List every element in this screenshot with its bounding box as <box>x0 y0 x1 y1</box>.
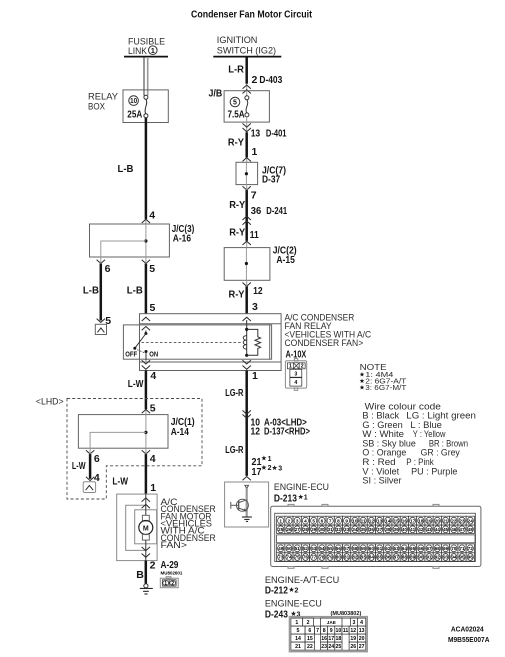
svg-text:CONDENSER FAN>: CONDENSER FAN> <box>285 338 364 349</box>
svg-text:PU : Purple: PU : Purple <box>411 466 457 477</box>
svg-text:13: 13 <box>359 628 365 634</box>
svg-text:36: 36 <box>251 205 262 217</box>
svg-text:1: 1 <box>304 495 308 502</box>
svg-text:ACA02024: ACA02024 <box>451 625 485 634</box>
svg-text:14: 14 <box>385 518 391 523</box>
svg-text:4: 4 <box>304 518 307 523</box>
svg-text:2: 2 <box>171 581 174 587</box>
svg-text:18: 18 <box>336 636 342 642</box>
svg-text:1: 1 <box>150 482 156 494</box>
svg-text:60: 60 <box>369 546 375 551</box>
svg-text:16: 16 <box>402 518 408 523</box>
svg-text:1: 1 <box>295 620 298 626</box>
svg-text:6: 6 <box>308 628 311 634</box>
svg-text:48: 48 <box>468 527 474 532</box>
svg-text:25: 25 <box>336 644 342 650</box>
svg-text:96: 96 <box>468 555 474 560</box>
svg-text:D-241: D-241 <box>266 205 287 217</box>
svg-text:Condenser Fan Motor Circuit: Condenser Fan Motor Circuit <box>191 8 312 20</box>
svg-text:10: 10 <box>336 628 342 634</box>
svg-text:L-B: L-B <box>83 285 99 297</box>
svg-text:7: 7 <box>316 628 319 634</box>
svg-text:17: 17 <box>252 466 262 478</box>
svg-text:15: 15 <box>307 636 313 642</box>
svg-text:86: 86 <box>385 555 391 560</box>
svg-text:20: 20 <box>435 518 441 523</box>
svg-text:JAE: JAE <box>327 620 336 625</box>
svg-text:M: M <box>143 526 149 533</box>
svg-text:R-Y: R-Y <box>229 199 245 211</box>
svg-text:10: 10 <box>130 98 137 105</box>
svg-text:NOTE: NOTE <box>360 362 387 372</box>
svg-text:64: 64 <box>402 546 408 551</box>
svg-text:3: 3 <box>294 371 297 377</box>
svg-text:1: 1 <box>151 46 155 55</box>
svg-text:25A: 25A <box>127 108 142 120</box>
svg-text:49: 49 <box>278 546 284 551</box>
svg-text:33: 33 <box>344 527 350 532</box>
svg-text:24: 24 <box>468 518 474 523</box>
svg-text:30: 30 <box>319 527 325 532</box>
svg-text:87: 87 <box>393 555 399 560</box>
svg-text:84: 84 <box>369 555 375 560</box>
svg-text:A-15: A-15 <box>276 254 295 266</box>
svg-text:D-37: D-37 <box>262 173 280 185</box>
svg-text:17: 17 <box>410 518 416 523</box>
svg-text:74: 74 <box>286 555 292 560</box>
svg-text:SWITCH (IG2): SWITCH (IG2) <box>217 46 276 57</box>
svg-text:1: 1 <box>279 518 282 523</box>
svg-text:2: 2 <box>295 588 299 595</box>
svg-text:56: 56 <box>336 546 342 551</box>
svg-text:90: 90 <box>418 555 424 560</box>
svg-text:93: 93 <box>443 555 449 560</box>
svg-text:75: 75 <box>295 555 301 560</box>
svg-text:24: 24 <box>328 644 334 650</box>
svg-text:22: 22 <box>451 518 457 523</box>
svg-text:94: 94 <box>451 555 457 560</box>
svg-text:40: 40 <box>402 527 408 532</box>
svg-text:7.5A: 7.5A <box>228 108 245 120</box>
svg-text:D-403: D-403 <box>259 74 282 86</box>
svg-text:39: 39 <box>393 527 399 532</box>
svg-text:23: 23 <box>321 644 327 650</box>
svg-text:85: 85 <box>377 555 383 560</box>
svg-text:5: 5 <box>150 302 156 314</box>
svg-text:22: 22 <box>307 644 313 650</box>
svg-text:R-Y: R-Y <box>229 227 245 239</box>
svg-text:44: 44 <box>435 527 441 532</box>
svg-text:38: 38 <box>385 527 391 532</box>
svg-text:LINK: LINK <box>128 46 148 57</box>
svg-text:9: 9 <box>345 518 348 523</box>
svg-text:12: 12 <box>369 518 375 523</box>
svg-text:ENGINE-ECU: ENGINE-ECU <box>274 482 329 493</box>
svg-text:5: 5 <box>149 263 155 275</box>
svg-text:12: 12 <box>253 285 263 297</box>
svg-text:11: 11 <box>361 518 366 523</box>
svg-text:50: 50 <box>286 546 292 551</box>
svg-text:89: 89 <box>410 555 416 560</box>
svg-text:R-Y: R-Y <box>229 288 245 300</box>
svg-text:L-W: L-W <box>128 378 144 390</box>
svg-text:A-14: A-14 <box>171 426 189 438</box>
svg-text:11: 11 <box>343 628 349 634</box>
svg-text:78: 78 <box>319 555 325 560</box>
svg-text:MU802601: MU802601 <box>161 571 183 576</box>
svg-text:3: 3 <box>296 518 299 523</box>
svg-text:52: 52 <box>303 546 309 551</box>
svg-text:91: 91 <box>426 555 432 560</box>
svg-text:5: 5 <box>233 100 237 107</box>
svg-text:5: 5 <box>312 518 315 523</box>
svg-text:77: 77 <box>311 555 317 560</box>
svg-text:27: 27 <box>295 527 301 532</box>
svg-text:53: 53 <box>311 546 317 551</box>
svg-text:21: 21 <box>295 644 301 650</box>
svg-text:1: 1 <box>268 456 272 463</box>
svg-text:29: 29 <box>311 527 317 532</box>
svg-text:A-29: A-29 <box>161 559 179 571</box>
svg-text:LG-R: LG-R <box>225 444 244 456</box>
svg-text:A-16: A-16 <box>173 233 191 245</box>
svg-text:21: 21 <box>443 518 449 523</box>
svg-text:15: 15 <box>393 518 399 523</box>
svg-text:3: 6G7-M/T: 3: 6G7-M/T <box>365 385 407 392</box>
svg-text:2: 2 <box>301 364 304 370</box>
svg-text:31: 31 <box>328 527 334 532</box>
svg-text:R-Y: R-Y <box>228 137 244 149</box>
svg-text:92: 92 <box>435 555 441 560</box>
svg-text:D-213: D-213 <box>274 493 297 505</box>
svg-text:3: 3 <box>297 612 301 619</box>
svg-text:55: 55 <box>328 546 334 551</box>
svg-text:36: 36 <box>369 527 375 532</box>
svg-text:L-B: L-B <box>118 163 134 175</box>
svg-text:1: 1 <box>289 364 292 370</box>
svg-text:BOX: BOX <box>88 101 105 112</box>
svg-text:L-R: L-R <box>228 64 244 76</box>
svg-text:26: 26 <box>350 644 356 650</box>
svg-text:95: 95 <box>459 555 465 560</box>
svg-text:5: 5 <box>150 403 156 415</box>
svg-text:58: 58 <box>352 546 358 551</box>
svg-text:83: 83 <box>361 555 367 560</box>
svg-text:8: 8 <box>323 628 326 634</box>
svg-text:45: 45 <box>443 527 449 532</box>
svg-text:13: 13 <box>377 518 383 523</box>
svg-text:27: 27 <box>359 644 365 650</box>
svg-text:FAN>: FAN> <box>161 540 188 551</box>
svg-text:81: 81 <box>344 555 350 560</box>
svg-text:6: 6 <box>94 453 100 465</box>
svg-text:20: 20 <box>359 636 365 642</box>
svg-text:1: 1 <box>252 370 258 382</box>
svg-text:3: 3 <box>352 620 355 626</box>
svg-text:3: 3 <box>252 301 258 313</box>
svg-text:54: 54 <box>319 546 325 551</box>
svg-text:57: 57 <box>344 546 350 551</box>
svg-text:32: 32 <box>336 527 342 532</box>
svg-text:19: 19 <box>350 636 356 642</box>
svg-text:L-W: L-W <box>112 476 128 488</box>
svg-text:47: 47 <box>459 527 465 532</box>
svg-text:8: 8 <box>337 518 340 523</box>
svg-text:80: 80 <box>336 555 342 560</box>
svg-text:67: 67 <box>426 546 432 551</box>
svg-text:72: 72 <box>468 546 474 551</box>
svg-text:D-401: D-401 <box>266 128 287 140</box>
svg-text:26: 26 <box>286 527 292 532</box>
svg-text:6: 6 <box>105 263 111 275</box>
svg-text:17: 17 <box>328 636 334 642</box>
svg-text:L-W: L-W <box>72 460 86 472</box>
svg-text:25: 25 <box>278 527 284 532</box>
svg-text:41: 41 <box>410 527 416 532</box>
svg-text:13: 13 <box>251 128 261 140</box>
svg-text:14: 14 <box>295 636 301 642</box>
svg-text:2: 2 <box>307 620 310 626</box>
svg-text:28: 28 <box>303 527 309 532</box>
svg-text:73: 73 <box>278 555 284 560</box>
svg-text:79: 79 <box>328 555 334 560</box>
svg-text:71: 71 <box>459 546 465 551</box>
svg-text:70: 70 <box>451 546 457 551</box>
svg-text:88: 88 <box>402 555 408 560</box>
svg-text:L-B: L-B <box>127 285 143 297</box>
svg-text:35: 35 <box>361 527 367 532</box>
svg-text:66: 66 <box>418 546 424 551</box>
svg-text:ON: ON <box>149 350 158 359</box>
svg-text:65: 65 <box>410 546 416 551</box>
svg-text:68: 68 <box>435 546 441 551</box>
svg-text:12: 12 <box>350 628 356 634</box>
svg-text:69: 69 <box>443 546 449 551</box>
svg-text:D-137<RHD>: D-137<RHD> <box>264 426 310 438</box>
svg-text:4: 4 <box>294 380 297 386</box>
svg-text:SI : Silver: SI : Silver <box>362 476 402 487</box>
svg-text:9: 9 <box>330 628 333 634</box>
svg-text:34: 34 <box>352 527 358 532</box>
svg-text:<LHD>: <LHD> <box>36 397 64 408</box>
svg-text:61: 61 <box>377 546 383 551</box>
svg-text:2: 2 <box>268 465 272 472</box>
svg-text:76: 76 <box>303 555 309 560</box>
svg-text:2: 2 <box>288 518 291 523</box>
svg-text:11: 11 <box>250 229 259 241</box>
svg-text:5: 5 <box>297 628 300 634</box>
svg-text:J/B: J/B <box>209 87 223 99</box>
svg-text:18: 18 <box>418 518 424 523</box>
svg-text:12: 12 <box>251 426 261 438</box>
svg-text:43: 43 <box>426 527 432 532</box>
svg-text:D-212: D-212 <box>265 585 288 597</box>
svg-text:3: 3 <box>278 466 282 473</box>
svg-text:OFF: OFF <box>125 350 137 359</box>
svg-text:1: 1 <box>252 146 258 158</box>
svg-text:19: 19 <box>426 518 432 523</box>
svg-text:6: 6 <box>321 518 324 523</box>
svg-text:IGNITION: IGNITION <box>217 35 258 46</box>
svg-text:51: 51 <box>295 546 301 551</box>
svg-text:42: 42 <box>418 527 424 532</box>
svg-text:82: 82 <box>352 555 358 560</box>
svg-text:37: 37 <box>377 527 383 532</box>
svg-text:M9B55E007A: M9B55E007A <box>448 635 490 644</box>
svg-text:B: B <box>136 569 144 581</box>
svg-text:D-243: D-243 <box>265 609 288 621</box>
svg-text:4: 4 <box>150 370 156 382</box>
svg-text:46: 46 <box>451 527 457 532</box>
svg-text:23: 23 <box>459 518 465 523</box>
svg-text:LG-R: LG-R <box>225 387 244 399</box>
svg-text:62: 62 <box>385 546 391 551</box>
svg-text:16: 16 <box>321 636 327 642</box>
svg-text:10: 10 <box>352 518 358 523</box>
svg-text:4: 4 <box>149 209 155 221</box>
svg-text:59: 59 <box>361 546 367 551</box>
svg-text:2: 2 <box>150 560 156 572</box>
svg-text:7: 7 <box>251 190 257 202</box>
svg-text:1: 1 <box>164 581 167 587</box>
svg-text:2: 2 <box>252 74 258 86</box>
svg-text:63: 63 <box>393 546 399 551</box>
svg-text:7: 7 <box>329 518 332 523</box>
svg-text:4: 4 <box>360 620 363 626</box>
svg-text:4: 4 <box>150 453 156 465</box>
